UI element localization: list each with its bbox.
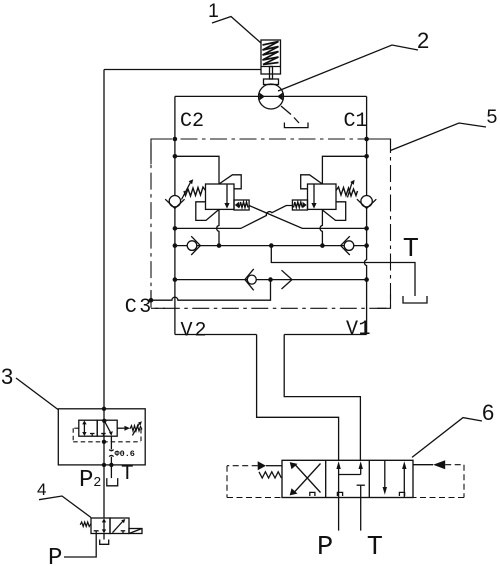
motor 2 [259, 84, 284, 109]
valve 4: solenoid [129, 529, 142, 534]
valve 3 enclosure [58, 409, 145, 465]
wire V2 route to valve 6 [257, 335, 339, 461]
counterbalance valve right: pilot spring box [292, 200, 307, 210]
wire CB valve L output (jump over pilot line) [217, 209, 219, 245]
svg-text:5: 5 [487, 106, 498, 128]
label 1 [208, 0, 261, 43]
label 4 [37, 480, 91, 518]
check valve on lower row [245, 269, 256, 290]
wire T stub valve 6 [360, 498, 362, 531]
port label P2 [79, 467, 101, 494]
label 6 [412, 400, 494, 457]
check valve left on row [187, 236, 200, 255]
tank symbol (motor drain) [284, 123, 308, 128]
wire C1 vertical line (with jump over T line) [365, 96, 367, 334]
wire CB valve R output (jump over pilot line) [320, 210, 322, 246]
wire valve3 to valve4 [103, 409, 105, 518]
boundary of assembly 5 (phantom line) [151, 139, 391, 308]
svg-text:3: 3 [1, 364, 13, 389]
counterbalance valve right: bottom pilot flag [322, 202, 345, 221]
wire pilot branch left (C2 to CB valve L) [175, 156, 219, 184]
svg-text:V1: V1 [346, 318, 371, 341]
wire block bottom edge left part [175, 334, 257, 336]
label 2 [278, 28, 429, 91]
wire check valve row [175, 245, 367, 247]
svg-text:T: T [403, 235, 419, 265]
wire lower row [175, 279, 367, 281]
valve 3: position squares [79, 420, 117, 436]
junction dots valve 3 [102, 407, 114, 468]
svg-text:2: 2 [417, 28, 429, 53]
wire block bottom edge right part [284, 334, 366, 336]
label 5 [391, 106, 498, 151]
svg-text:C2: C2 [180, 110, 204, 133]
svg-text:Φ0.6: Φ0.6 [115, 449, 135, 459]
wire C2 vertical line [174, 96, 176, 334]
brake cylinder 1 [261, 40, 281, 85]
check valve on C1 line [357, 196, 376, 209]
valve 6: right pilot dashed lines [413, 465, 464, 498]
counterbalance valve left: pilot spring box [234, 200, 249, 210]
counterbalance valve left: body [206, 184, 235, 209]
wire long left line down to valve 3 [103, 70, 105, 409]
wire cross pilot B (C2 to right spring box, jump at crossing) [175, 206, 293, 229]
valve 4: spring [80, 522, 91, 527]
check valve right on row [341, 236, 354, 255]
valve 3: pilot dashed lines [73, 428, 141, 442]
counterbalance valve right: spring and adjusting arrow [336, 180, 358, 198]
valve 6: centre square [336, 461, 365, 497]
valve 3: spring with arrow [117, 421, 142, 435]
valve 3: orifice line to tank [109, 436, 135, 478]
flow arrow on lower row [282, 270, 293, 289]
motor case drain line [281, 106, 299, 123]
wire P supply to valve 4 [64, 534, 96, 558]
check valve on C2 line [165, 196, 184, 209]
svg-text:C1: C1 [344, 110, 368, 133]
wire P stub valve 6 [338, 498, 340, 531]
valve 6: right pilot arrow [413, 460, 445, 469]
svg-text:6: 6 [482, 400, 494, 425]
wire valve4 to tank [103, 534, 105, 540]
wire pilot line to brake [104, 69, 261, 71]
svg-text:P: P [48, 545, 62, 566]
tank symbol T of block 5 [403, 296, 427, 303]
valve 6: left square crossed arrows [290, 462, 321, 496]
counterbalance valve left: top pilot flag [219, 175, 241, 189]
svg-text:2: 2 [93, 476, 101, 491]
counterbalance valve left: spring and adjusting arrow [182, 179, 206, 199]
svg-text:T: T [121, 463, 134, 486]
svg-text:4: 4 [37, 480, 46, 499]
tank symbol under valve 4 [100, 540, 109, 545]
wire cross pilot A (C1 to left spring box) [249, 206, 367, 229]
valve 6: right square straight arrows [383, 460, 407, 497]
counterbalance valve right: body [308, 184, 337, 209]
svg-text:P: P [317, 533, 333, 563]
valve 4: position squares [91, 518, 129, 534]
svg-text:T: T [367, 533, 383, 563]
tank symbol under valve 3 [107, 478, 118, 486]
svg-text:V2: V2 [181, 320, 209, 343]
junction dots block 5 [149, 137, 369, 303]
wire pilot branch right (C1 to CB valve R) [322, 156, 366, 184]
counterbalance valve right: top pilot flag [301, 175, 323, 189]
wire C3 line (jump over C2 line) [151, 280, 271, 301]
wire V1 route to valve 6 [284, 335, 360, 461]
valve 6: left pilot arrow and spring [258, 461, 282, 478]
valve 6: body squares [282, 460, 413, 497]
svg-text:P: P [79, 467, 93, 494]
counterbalance valve left: bottom pilot flag [196, 202, 219, 221]
svg-text:1: 1 [208, 0, 219, 22]
label 3 [1, 364, 58, 410]
valve 6: left pilot dashed lines [227, 466, 282, 498]
wire T branch to tank [271, 246, 415, 296]
wire block top edge [175, 95, 367, 97]
